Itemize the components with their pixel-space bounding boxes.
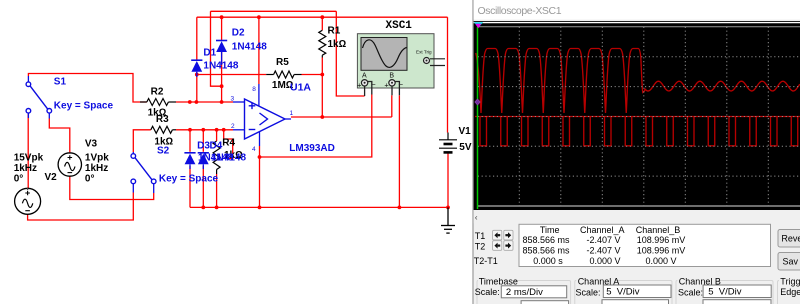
svg-text:4: 4 bbox=[252, 146, 256, 153]
svg-text:1kHz: 1kHz bbox=[85, 163, 108, 174]
svg-text:1Vpk: 1Vpk bbox=[85, 153, 109, 164]
svg-text:Edge:: Edge: bbox=[780, 287, 800, 297]
svg-text:1N4148: 1N4148 bbox=[211, 153, 246, 164]
svg-text:Key = Space: Key = Space bbox=[54, 101, 114, 112]
svg-text:LM393AD: LM393AD bbox=[289, 143, 335, 154]
svg-text:1N4148: 1N4148 bbox=[232, 42, 267, 53]
svg-text:V3: V3 bbox=[85, 139, 98, 150]
svg-text:3: 3 bbox=[231, 96, 235, 103]
svg-text:-2.407 V: -2.407 V bbox=[586, 235, 620, 245]
svg-text:858.566 ms: 858.566 ms bbox=[522, 245, 570, 255]
svg-text:1: 1 bbox=[290, 110, 294, 117]
svg-text:D3: D3 bbox=[197, 141, 210, 152]
svg-text:5 V/Div: 5 V/Div bbox=[606, 287, 640, 298]
svg-text:B: B bbox=[389, 73, 394, 80]
svg-text:1kΩ: 1kΩ bbox=[154, 137, 173, 148]
svg-text:S1: S1 bbox=[54, 77, 67, 88]
svg-text:1kHz: 1kHz bbox=[14, 163, 37, 174]
svg-text:R3: R3 bbox=[156, 114, 169, 125]
svg-text:15Vpk: 15Vpk bbox=[14, 153, 44, 164]
svg-text:Timebase: Timebase bbox=[479, 277, 518, 287]
svg-text:0.000 V: 0.000 V bbox=[645, 256, 676, 266]
svg-text:+: + bbox=[357, 81, 362, 90]
svg-text:+: + bbox=[384, 81, 389, 90]
svg-text:5V: 5V bbox=[459, 142, 472, 153]
svg-text:D1: D1 bbox=[203, 48, 216, 59]
svg-text:‹: ‹ bbox=[475, 212, 478, 222]
svg-text:Key = Space: Key = Space bbox=[159, 174, 219, 185]
svg-text:Trigger: Trigger bbox=[780, 277, 800, 287]
svg-text:T1: T1 bbox=[475, 231, 486, 241]
svg-text:5 V/Div: 5 V/Div bbox=[708, 287, 742, 298]
svg-text:A: A bbox=[362, 73, 367, 80]
svg-text:Oscilloscope-XSC1: Oscilloscope-XSC1 bbox=[478, 5, 562, 17]
svg-text:0.000 s: 0.000 s bbox=[533, 256, 563, 266]
svg-text:R2: R2 bbox=[151, 87, 164, 98]
svg-text:108.996 mV: 108.996 mV bbox=[637, 235, 686, 245]
svg-text:Time: Time bbox=[540, 225, 560, 235]
svg-text:R4: R4 bbox=[222, 138, 235, 149]
svg-text:R5: R5 bbox=[276, 57, 289, 68]
svg-text:1N4148: 1N4148 bbox=[203, 61, 238, 72]
svg-text:Channel_B: Channel_B bbox=[636, 225, 681, 235]
svg-text:Ext Trig: Ext Trig bbox=[416, 50, 432, 55]
svg-text:Channel_A: Channel_A bbox=[580, 225, 625, 235]
svg-text:R1: R1 bbox=[328, 26, 341, 37]
svg-text:Sav: Sav bbox=[783, 257, 799, 267]
svg-text:Scale:: Scale: bbox=[576, 288, 601, 298]
svg-text:858.566 ms: 858.566 ms bbox=[522, 235, 570, 245]
svg-text:Scale:: Scale: bbox=[678, 288, 703, 298]
svg-text:108.996 mV: 108.996 mV bbox=[637, 245, 686, 255]
svg-text:0°: 0° bbox=[14, 174, 24, 185]
svg-text:V2: V2 bbox=[45, 172, 58, 183]
svg-text:U1A: U1A bbox=[290, 82, 311, 94]
svg-text:2: 2 bbox=[231, 123, 235, 130]
svg-text:D2: D2 bbox=[232, 28, 245, 39]
svg-text:Scale:: Scale: bbox=[475, 287, 500, 297]
svg-text:-2.407 V: -2.407 V bbox=[586, 245, 620, 255]
svg-text:T2: T2 bbox=[475, 241, 486, 251]
svg-text:V1: V1 bbox=[459, 126, 472, 137]
svg-text:2 ms/Div: 2 ms/Div bbox=[506, 287, 543, 298]
svg-text:D4: D4 bbox=[210, 141, 223, 152]
svg-text:T2-T1: T2-T1 bbox=[474, 256, 498, 266]
svg-text:XSC1: XSC1 bbox=[386, 20, 413, 32]
svg-text:8: 8 bbox=[252, 86, 256, 93]
svg-text:Reve: Reve bbox=[781, 234, 800, 244]
svg-text:0.000 V: 0.000 V bbox=[589, 256, 620, 266]
svg-text:0°: 0° bbox=[85, 174, 95, 185]
svg-text:1kΩ: 1kΩ bbox=[328, 39, 347, 50]
